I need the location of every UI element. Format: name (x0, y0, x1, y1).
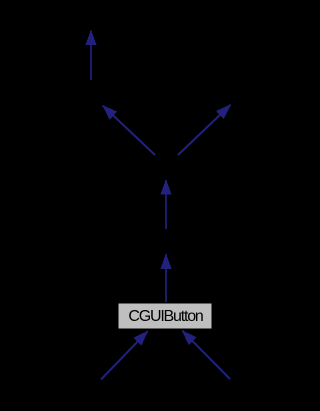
wire arrow C (middle node to right parent, diagonal) (178, 105, 230, 155)
svg-text:CGUIButton: CGUIButton (128, 308, 203, 325)
wire arrow D (vertical, row4 to row3) (165, 180, 167, 229)
node CGUIButton (118, 303, 212, 329)
wire arrow A (left parent to top node) (90, 31, 92, 81)
wire arrow E (vertical, CGUIButton to row4) (165, 254, 167, 302)
wire arrow F (bottom-left child to CGUIButton, diagonal) (101, 331, 148, 379)
wire arrow B (middle node to left parent, diagonal) (103, 106, 155, 155)
wire arrow G (bottom-right child to CGUIButton, diagonal) (182, 331, 230, 379)
